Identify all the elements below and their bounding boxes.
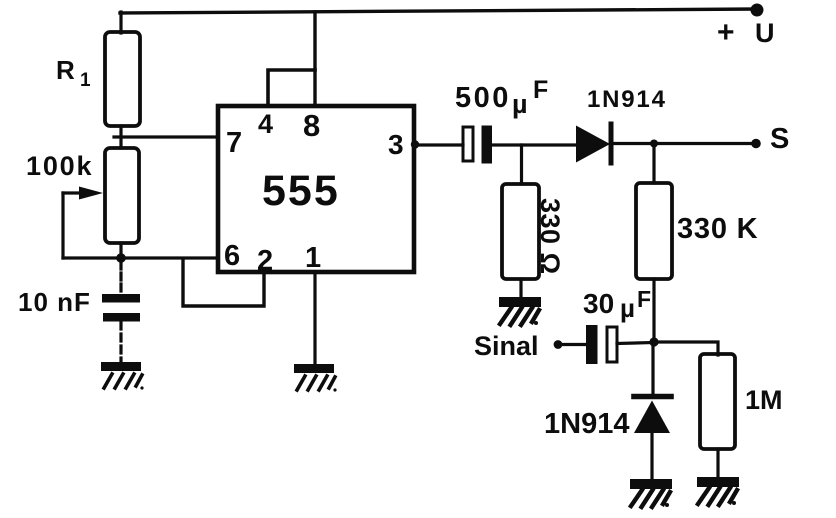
wire: +U supply top rail <box>120 9 757 13</box>
wire: 1M to ground <box>716 449 719 477</box>
node: junction pot/pin6/10nF <box>116 253 126 263</box>
wire: 330K down to signal junction <box>652 279 655 342</box>
svg-text:500: 500 <box>455 82 511 114</box>
svg-text:330 Ω: 330 Ω <box>535 198 565 275</box>
diode D1 1N914 triangle <box>576 126 610 163</box>
diode D2 1N914 triangle <box>634 401 670 434</box>
svg-text:+: + <box>717 16 735 49</box>
diode D2 cathode bar <box>634 394 671 400</box>
svg-text:100k: 100k <box>26 151 93 181</box>
wire: junction down to diode D2 <box>651 342 654 393</box>
diode D1 cathode bar <box>609 124 614 163</box>
capacitor 10nF plate 2 <box>103 313 140 322</box>
ground (10nF) <box>101 362 144 390</box>
capacitor 500uF positive plate (solid) <box>482 126 493 164</box>
ground (1M) <box>697 477 739 505</box>
svg-text:µ: µ <box>512 89 528 119</box>
resistor 330 ohm <box>502 184 539 279</box>
svg-text:1N914: 1N914 <box>587 86 667 113</box>
wire: diode to S terminal <box>611 142 755 145</box>
wire: pin 1 to ground <box>313 272 316 364</box>
wire: junction down to 10nF (dashed) <box>119 262 122 294</box>
wire: diode D2 to ground <box>650 433 653 479</box>
svg-text:µ: µ <box>620 293 635 323</box>
wire: rail to R1 top <box>119 12 122 33</box>
svg-text:330 K: 330 K <box>677 213 758 245</box>
capacitor 30uF plate (outline) <box>607 327 617 362</box>
svg-text:7: 7 <box>226 127 242 159</box>
svg-text:6: 6 <box>224 240 240 272</box>
svg-text:R: R <box>56 55 75 85</box>
resistor 1M <box>700 354 735 449</box>
svg-text:555: 555 <box>262 167 340 215</box>
node: S terminal dot <box>751 139 761 149</box>
svg-text:4: 4 <box>258 109 273 139</box>
ground (330 ohm) <box>499 297 541 325</box>
node: junction S/330K <box>650 140 658 148</box>
ground (diode D2) <box>630 479 672 507</box>
potentiometer 100k <box>105 148 139 243</box>
svg-text:1: 1 <box>80 70 91 91</box>
svg-text:1M: 1M <box>745 385 783 415</box>
op-amp/timer IC U1 555 box <box>218 106 414 272</box>
wire: pin 7 horizontal <box>114 135 218 138</box>
resistor R1 <box>105 32 140 126</box>
wire: pin2 to pin6 loop <box>183 259 264 306</box>
svg-text:Sinal: Sinal <box>474 331 539 361</box>
capacitor 500uF negative plate (outline) <box>463 127 473 161</box>
node +U terminal dot <box>751 4 764 17</box>
wire: 30uF to junction <box>617 343 654 344</box>
wire: junction down to 330 ohm resistor <box>520 145 523 184</box>
svg-text:1N914: 1N914 <box>544 408 629 440</box>
wire: wiper down <box>61 193 64 258</box>
node: junction 330K/30uF/diode/1M <box>649 337 658 346</box>
svg-text:S: S <box>770 123 789 155</box>
svg-text:2: 2 <box>257 245 273 277</box>
svg-text:F: F <box>637 286 651 312</box>
wire: 10nF to ground (dashed) <box>119 322 122 362</box>
svg-text:F: F <box>533 76 548 104</box>
node: pin 3 junction dot <box>411 140 419 148</box>
svg-text:1: 1 <box>305 242 321 274</box>
capacitor 10nF plate 1 <box>102 294 140 303</box>
node: Sinal terminal dot <box>554 340 563 349</box>
wire: R1 bottom to pot top (junction with pin7 wire) <box>119 126 122 148</box>
wire: cap to diode <box>492 143 576 146</box>
wire: Sinal to 30uF cap <box>560 343 586 346</box>
potentiometer wiper arrow <box>63 191 82 194</box>
resistor 330K <box>636 183 672 279</box>
wire: S junction down to 330K <box>652 144 655 184</box>
wire: pot bottom to junction <box>119 243 122 258</box>
wire: pin 3 output to capacitor <box>414 143 463 146</box>
wire: pin 4 up and over to pin 8 rail <box>268 70 315 106</box>
ground (pin 1) <box>294 364 337 392</box>
capacitor 30uF plate (solid) <box>586 325 598 364</box>
wire: pin 8 to top rail <box>313 12 316 106</box>
svg-text:10 nF: 10 nF <box>18 287 91 317</box>
wire: pin 6 horizontal <box>63 256 218 259</box>
wire: junction to 1M <box>654 342 718 355</box>
svg-text:3: 3 <box>388 129 404 160</box>
wire: 330 ohm to ground <box>519 279 522 297</box>
svg-text:8: 8 <box>303 108 320 143</box>
svg-text:U: U <box>755 18 775 48</box>
svg-text:30: 30 <box>583 288 614 319</box>
